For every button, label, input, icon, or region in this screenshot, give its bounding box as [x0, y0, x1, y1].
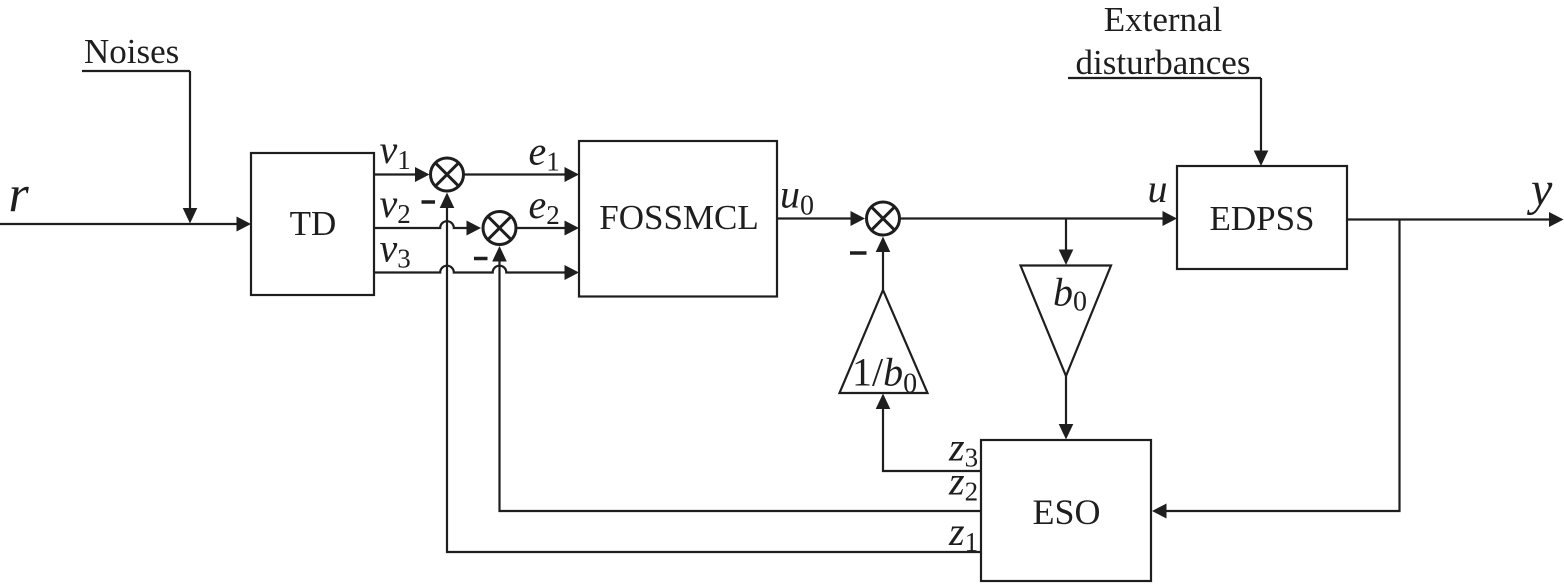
noises underline — [82, 70, 190, 72]
block ESO — [981, 440, 1151, 581]
wire y feedback to ESO — [1152, 220, 1400, 519]
block TD — [251, 153, 374, 295]
wire u branch down to b0 — [1059, 219, 1074, 266]
summing junction S2 — [483, 212, 516, 245]
svg-text:disturbances: disturbances — [1076, 43, 1251, 82]
summing junction S3 — [867, 202, 900, 235]
wire z3 ESO to 1/b0 — [876, 394, 981, 472]
wire z1 ESO to S1 — [440, 193, 981, 553]
block FOSSMCL — [579, 141, 777, 297]
wire z2 ESO to S2 — [492, 246, 981, 511]
wire b0 to ESO — [1059, 376, 1074, 440]
svg-text:TD: TD — [290, 204, 337, 243]
wire u S3 to EDPSS — [900, 211, 1178, 226]
wire e1 S1 to FOSSMCL — [464, 167, 580, 182]
external disturbances underline — [1068, 77, 1261, 79]
wire 1/b0 to S3 — [876, 237, 891, 291]
gain 1/b0 (triangle pointing up) — [840, 290, 928, 400]
wire v2 TD to S2 (hop over z1 line) — [374, 221, 481, 236]
wire external disturbances to EDPSS — [1254, 78, 1269, 166]
svg-text:y: y — [1526, 163, 1553, 216]
minus sign at S3 — [850, 251, 867, 255]
block EDPSS — [1177, 166, 1347, 269]
svg-text:r: r — [9, 167, 30, 224]
svg-text:u: u — [1148, 166, 1168, 211]
wire e2 S2 to FOSSMCL — [516, 221, 579, 236]
svg-text:ESO: ESO — [1032, 492, 1100, 532]
wire u0 FOSSMCL to S3 — [777, 211, 865, 226]
wire y output — [1347, 212, 1564, 227]
gain b0 (triangle pointing down) — [1021, 266, 1112, 377]
svg-text:Noises: Noises — [84, 32, 179, 71]
wire v3 TD to FOSSMCL (hops over z1 and z2 lines) — [374, 265, 579, 280]
wire noises to r line — [183, 71, 198, 224]
summing junction S1 — [431, 158, 464, 191]
svg-text:FOSSMCL: FOSSMCL — [599, 198, 759, 237]
minus sign at S2 — [474, 257, 488, 261]
svg-text:External: External — [1104, 0, 1223, 39]
wire v1 TD to S1 — [374, 167, 430, 182]
wire r input to TD — [0, 217, 251, 232]
label External disturbances — [1076, 0, 1251, 82]
svg-text:EDPSS: EDPSS — [1209, 199, 1314, 238]
minus sign at S1 — [422, 200, 436, 204]
